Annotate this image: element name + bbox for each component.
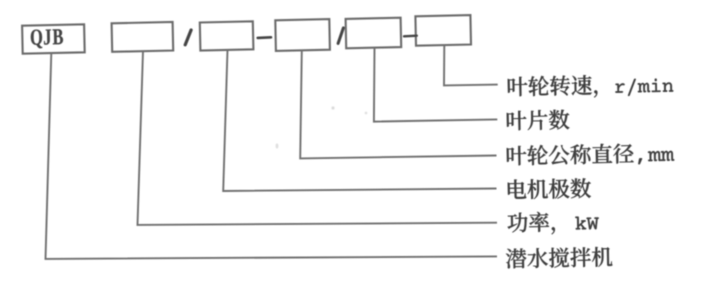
separator dash between B5 and B6 xyxy=(404,35,417,38)
label 功率, kW (power) xyxy=(507,211,599,235)
wire from box B2 to label 功率 xyxy=(138,51,498,225)
box B4 (impeller diameter field) xyxy=(275,19,330,51)
wire from box B3 to label 电机极数 xyxy=(223,50,496,191)
box B1 (product type code QJB) xyxy=(22,24,85,53)
box B5 (blade count field) xyxy=(346,18,402,49)
separator dash between B3 and B4 xyxy=(258,36,271,39)
label 电机极数 (motor pole number) xyxy=(508,178,591,200)
label 潜水搅拌机 (submersible mixer) xyxy=(506,247,613,269)
separator slash between B2 and B3 xyxy=(185,30,191,45)
label 叶片数 (number of blades) xyxy=(507,109,570,130)
label 叶轮转速, r/min (impeller speed) xyxy=(508,73,674,99)
wire from box B4 to label 叶轮公称直径 xyxy=(300,50,496,159)
wire from box B6 to label 叶轮转速 xyxy=(444,45,498,85)
faint ink speck 3 xyxy=(276,143,279,148)
box B3 (motor poles field) xyxy=(200,21,254,50)
faint ink speck 2 xyxy=(365,112,368,115)
text QJB inside box B1 xyxy=(31,29,63,48)
box B6 (impeller speed field) xyxy=(415,15,471,46)
label 叶轮公称直径, mm (nominal impeller diameter) xyxy=(507,142,675,166)
wire from box B5 to label 叶片数 xyxy=(374,48,497,122)
box B2 (power field) xyxy=(112,22,174,52)
faint ink speck 1 xyxy=(331,106,334,109)
wire from box B1 to label 潜水搅拌机 xyxy=(46,53,498,259)
separator slash between B4 and B5 xyxy=(338,28,343,44)
